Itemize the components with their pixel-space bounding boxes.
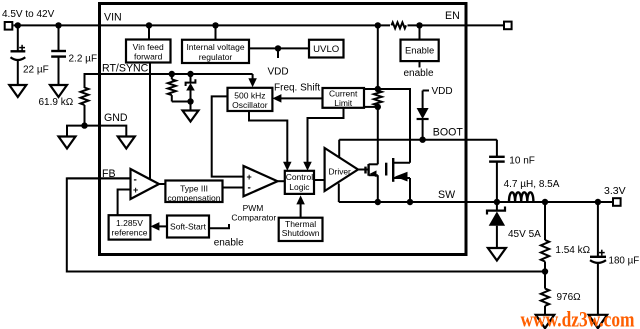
svg-text:Internal voltage: Internal voltage bbox=[186, 42, 244, 52]
ground below GND pin bbox=[118, 137, 135, 149]
block soft-start bbox=[167, 216, 209, 238]
block current limit bbox=[323, 88, 365, 108]
block 1.285V reference bbox=[109, 215, 151, 239]
svg-text:Freq. Shift: Freq. Shift bbox=[274, 82, 320, 93]
wire control to driver bbox=[314, 179, 326, 181]
svg-text:500 kHz: 500 kHz bbox=[234, 91, 265, 101]
node output cap bbox=[595, 199, 601, 205]
terminal EN bbox=[504, 22, 512, 30]
node input cap 2.2uF bbox=[55, 22, 61, 28]
svg-text:Vin feed: Vin feed bbox=[133, 42, 164, 52]
polarity plus output cap bbox=[599, 252, 605, 254]
node feedback tap bbox=[542, 268, 548, 274]
comparator error amp bbox=[131, 169, 160, 199]
svg-text:-: - bbox=[248, 183, 251, 194]
capacitor 10nF bbox=[489, 156, 505, 158]
resistor 61.9k bbox=[81, 88, 89, 106]
wire error amp to typeIII bbox=[159, 183, 165, 185]
node zener top bbox=[187, 71, 193, 77]
svg-text:3.3V: 3.3V bbox=[604, 185, 626, 197]
resistor EN pullup bbox=[392, 22, 407, 28]
svg-text:RT/SYNC: RT/SYNC bbox=[102, 63, 149, 75]
block internal voltage regulator bbox=[182, 40, 249, 63]
svg-text:Current: Current bbox=[329, 89, 358, 99]
arrow thermal to control bbox=[300, 200, 302, 218]
wire sense bottom bbox=[364, 106, 378, 108]
block control logic bbox=[285, 171, 314, 194]
svg-text:61.9 kΩ: 61.9 kΩ bbox=[39, 97, 74, 108]
node gnd rail bbox=[81, 122, 87, 128]
svg-text:Comparator: Comparator bbox=[231, 213, 276, 223]
wire current limit to oscillator bbox=[276, 97, 323, 99]
ground input cap 2.2uF bbox=[50, 85, 67, 97]
svg-text:Control: Control bbox=[286, 172, 314, 182]
wire clamp bottom bbox=[172, 101, 191, 103]
resistor 1.54k bbox=[541, 240, 549, 262]
ground RT clamp bbox=[183, 111, 199, 122]
comparator PWM bbox=[244, 166, 278, 196]
node Vin feed forward tap bbox=[146, 22, 152, 28]
wire VIN rail bbox=[14, 24, 391, 26]
node clamp bottom bbox=[187, 98, 193, 104]
svg-text:Limit: Limit bbox=[334, 98, 353, 108]
svg-text:VDD: VDD bbox=[432, 86, 453, 97]
svg-text:1.285V: 1.285V bbox=[116, 218, 143, 228]
driver BOOT riser bbox=[338, 140, 340, 159]
svg-text:compensation: compensation bbox=[168, 193, 221, 203]
block thermal shutdown bbox=[279, 218, 323, 241]
ground output cap bbox=[589, 315, 608, 329]
svg-text:BOOT: BOOT bbox=[433, 127, 464, 139]
wire soft-start enable bbox=[209, 224, 229, 228]
arrow soft-start to reference bbox=[155, 225, 167, 227]
driver SW riser bbox=[338, 184, 340, 203]
svg-text:Driver: Driver bbox=[329, 166, 352, 176]
wire PWM to control logic bbox=[278, 180, 285, 182]
capacitor 180uF bbox=[597, 202, 599, 256]
svg-text:reference: reference bbox=[112, 228, 148, 238]
node sense branch bbox=[375, 22, 381, 28]
block Enable bbox=[401, 40, 439, 62]
svg-text:-: - bbox=[134, 174, 137, 185]
node SW cap junction bbox=[494, 199, 500, 205]
label VDD right bbox=[423, 90, 429, 92]
wire R2 to gnd bbox=[544, 306, 546, 315]
svg-text:UVLO: UVLO bbox=[313, 44, 339, 55]
svg-text:PWM: PWM bbox=[243, 203, 264, 213]
block Vin feed forward bbox=[126, 40, 171, 63]
svg-text:GND: GND bbox=[104, 112, 128, 124]
ground catch diode bbox=[488, 248, 506, 261]
svg-text:EN: EN bbox=[445, 10, 460, 22]
node enable tap bbox=[416, 22, 422, 28]
svg-text:+: + bbox=[247, 172, 252, 182]
svg-text:2.2 µF: 2.2 µF bbox=[69, 53, 98, 64]
terminal 3.3V output bbox=[613, 198, 621, 206]
wire enable stub bbox=[419, 61, 421, 67]
node SW main FET bbox=[407, 199, 413, 205]
block UVLO bbox=[309, 40, 344, 58]
wire EN to pin bbox=[408, 24, 504, 26]
wire oscillator to control logic bbox=[249, 111, 287, 165]
wire regulator to UVLO bbox=[249, 47, 309, 49]
wire 61.9k to gnd rail bbox=[84, 105, 86, 126]
svg-text:180 µF: 180 µF bbox=[609, 255, 640, 266]
resistor RT clamp bbox=[171, 74, 173, 79]
svg-text:+: + bbox=[133, 185, 138, 195]
node output bbox=[542, 199, 548, 205]
node clamp resistor top bbox=[169, 71, 175, 77]
ground divider bbox=[536, 315, 555, 329]
node input cap 22uF bbox=[15, 22, 21, 28]
arrow RT/SYNC into oscillator bbox=[252, 74, 254, 80]
svg-text:forward: forward bbox=[134, 51, 163, 61]
node BOOT bbox=[419, 137, 425, 143]
node internal regulator tap bbox=[212, 22, 218, 28]
svg-text:Type III: Type III bbox=[180, 183, 208, 193]
wire sense top bbox=[364, 88, 378, 90]
wire VIN to sense resistor bbox=[377, 25, 379, 89]
wire to Vin feed forward bbox=[148, 25, 150, 39]
svg-text:Logic: Logic bbox=[289, 182, 310, 192]
node VDD bbox=[275, 45, 281, 51]
zener diode RT clamp bbox=[190, 74, 192, 82]
ground input cap 22uF bbox=[9, 85, 26, 97]
svg-text:4.5V to 42V: 4.5V to 42V bbox=[2, 9, 55, 20]
svg-text:10 nF: 10 nF bbox=[509, 156, 535, 167]
wire to Enable block bbox=[419, 25, 421, 39]
op-amp driver bbox=[325, 148, 358, 191]
resistor 976 bbox=[541, 289, 549, 306]
transistor main FET bbox=[385, 163, 387, 176]
svg-text:regulator: regulator bbox=[199, 52, 233, 62]
inductor 4.7uH bbox=[509, 192, 533, 201]
wire sense to small FET drain bbox=[377, 107, 379, 164]
wire to internal regulator bbox=[215, 25, 217, 39]
block 500kHz oscillator bbox=[228, 88, 273, 111]
svg-text:enable: enable bbox=[404, 68, 434, 79]
resistor current sense bbox=[374, 91, 382, 106]
wire clamp to gnd bbox=[190, 102, 192, 112]
svg-text:4.7 µH, 8.5A: 4.7 µH, 8.5A bbox=[504, 179, 560, 190]
wire BOOT bbox=[339, 139, 497, 141]
svg-text:VDD: VDD bbox=[268, 67, 289, 78]
wire feedback loop bbox=[67, 178, 545, 271]
svg-text:22 µF: 22 µF bbox=[23, 64, 49, 75]
block type III compensation bbox=[165, 181, 222, 203]
capacitor C1 22uF bbox=[17, 25, 19, 51]
transistor sense FET bbox=[364, 167, 366, 174]
svg-text:1.54 kΩ: 1.54 kΩ bbox=[555, 245, 590, 256]
wire output to R1 bbox=[544, 202, 546, 240]
wire drain rail big FET bbox=[378, 89, 410, 163]
svg-text:VIN: VIN bbox=[104, 11, 122, 23]
polarity plus C1 bbox=[19, 47, 25, 49]
svg-text:SW: SW bbox=[438, 189, 455, 201]
node sense resistor top bbox=[375, 86, 381, 92]
terminal VIN input bbox=[5, 22, 13, 30]
wire ref to error amp plus bbox=[118, 190, 131, 216]
capacitor C2 2.2uF bbox=[58, 25, 60, 51]
svg-text:www.dz3w.com: www.dz3w.com bbox=[521, 307, 635, 329]
wire oscillator ramp to PWM bbox=[212, 96, 244, 176]
wire current limit to control logic bbox=[308, 108, 344, 165]
diode VDD to BOOT bbox=[422, 91, 424, 109]
wire typeIII to PWM minus bbox=[223, 187, 244, 189]
ground left of GND pin bbox=[59, 137, 76, 149]
node SW sense FET bbox=[375, 199, 381, 205]
wire SW bbox=[339, 201, 612, 203]
IC block outline bbox=[100, 4, 467, 255]
node sense resistor bottom bbox=[375, 104, 381, 110]
wire FB to error amp bbox=[67, 177, 131, 179]
wire BOOT to cap bbox=[496, 140, 498, 157]
svg-text:Soft-Start: Soft-Start bbox=[170, 222, 207, 232]
svg-text:enable: enable bbox=[214, 238, 244, 249]
svg-text:Enable: Enable bbox=[405, 45, 434, 56]
svg-text:Oscillator: Oscillator bbox=[232, 100, 268, 110]
wire RT/SYNC bbox=[85, 74, 253, 88]
wire Vin feed forward output bbox=[149, 63, 151, 180]
diode catch 45V 5A bbox=[496, 202, 498, 211]
svg-text:Shutdown: Shutdown bbox=[282, 228, 320, 238]
svg-text:976Ω: 976Ω bbox=[557, 292, 582, 303]
wire driver gate bbox=[358, 169, 369, 171]
svg-text:45V 5A: 45V 5A bbox=[508, 229, 541, 240]
wire R1 to R2 bbox=[544, 262, 546, 289]
wire gnd rail bbox=[67, 126, 126, 137]
